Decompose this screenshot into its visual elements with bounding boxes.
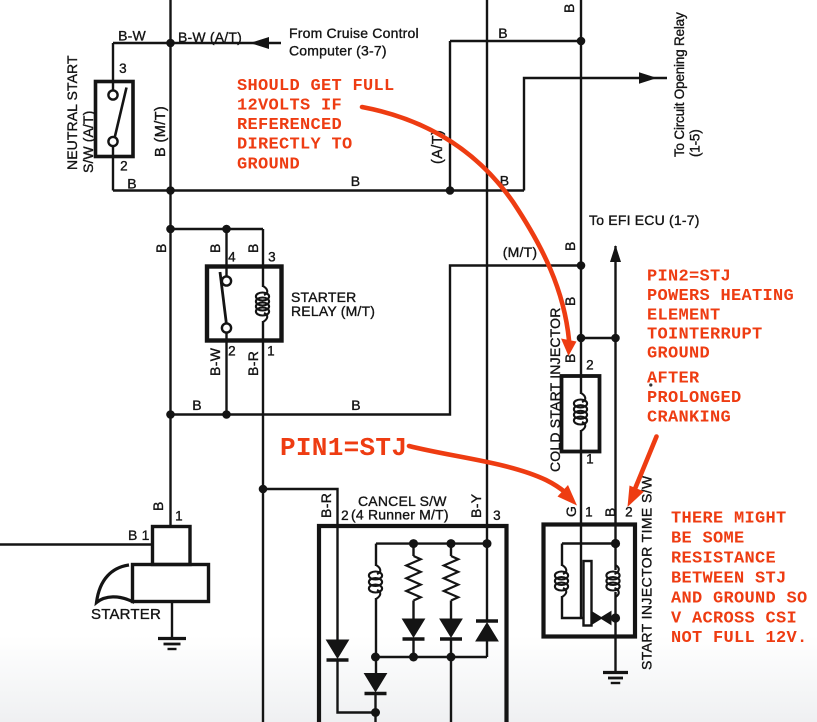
wire: B-Y line V5 to cancel switch pin 3 [486, 0, 488, 544]
svg-text:1: 1 [586, 452, 594, 467]
node: STJ/EFI junction [577, 334, 586, 343]
svg-text:PROLONGED: PROLONGED [647, 389, 742, 408]
svg-text:V ACROSS CSI: V ACROSS CSI [671, 610, 797, 629]
start injector time switch box [544, 525, 636, 637]
wire: cancel bottom rail [376, 656, 488, 658]
starter motor box [133, 565, 209, 602]
svg-text:B-W (A/T): B-W (A/T) [178, 29, 242, 45]
wire: STJ line V6 upper [580, 0, 582, 394]
wire [450, 657, 452, 722]
wire: left heater coil bottom lead [562, 596, 584, 618]
svg-text:B-R: B-R [245, 351, 261, 376]
node: time switch top junction [611, 539, 620, 548]
svg-text:B: B [153, 243, 169, 253]
relay coil L1 [256, 286, 269, 322]
node [409, 539, 418, 548]
wire: relay coil top lead [262, 267, 264, 288]
ground: time switch [603, 673, 628, 684]
svg-text:CRANKING: CRANKING [647, 409, 731, 428]
svg-text:(M/T): (M/T) [503, 244, 537, 260]
svg-text:B-Y: B-Y [468, 493, 484, 518]
cancel diode D1 (B-R branch) [327, 640, 349, 660]
svg-text:3: 3 [119, 61, 127, 76]
time switch right heater coil [606, 565, 619, 597]
wire: relay pin 4 lead [225, 229, 227, 267]
wire: D1 to bottom junction [338, 661, 376, 713]
wire [450, 544, 452, 556]
starter relay (M/T) box [207, 267, 282, 341]
svg-text:B: B [602, 507, 618, 517]
neutral start switch S/W (A/T) box [96, 82, 134, 157]
svg-text:3: 3 [268, 250, 276, 265]
wire: B (M/T) path H7-V9-H6 [171, 266, 582, 415]
svg-text:B: B [245, 243, 261, 253]
svg-text:From Cruise Control: From Cruise Control [289, 25, 419, 41]
svg-text:RESISTANCE: RESISTANCE [671, 550, 776, 569]
svg-text:BE SOME: BE SOME [671, 530, 745, 549]
red arrow: PIN1=STJ to time switch pin 1 [409, 446, 566, 493]
wire: relay coil bottom lead [262, 321, 264, 341]
wire: relay pin 1 B-R line V3 [262, 341, 264, 722]
svg-text:B: B [562, 353, 578, 363]
wire: up-diode top lead [486, 544, 488, 621]
svg-text:1: 1 [175, 509, 183, 524]
ground: starter [158, 639, 186, 650]
svg-text:POWERS HEATING: POWERS HEATING [647, 287, 794, 306]
wire: H3 branch to starter relay [171, 228, 264, 230]
node: B-W junction [166, 39, 175, 48]
wire: B bus H2 [113, 189, 524, 191]
svg-text:SHOULD GET FULL: SHOULD GET FULL [237, 77, 395, 96]
svg-text:To EFI ECU (1-7): To EFI ECU (1-7) [589, 212, 700, 228]
svg-text:G: G [563, 506, 579, 517]
cancel diode D3 [440, 619, 462, 639]
time switch bimetal strip [584, 561, 592, 626]
arrowhead: to EFI ECU (points up) [610, 245, 621, 262]
wire [412, 601, 414, 620]
wire [412, 640, 414, 658]
node: relay branch junction [166, 225, 175, 234]
time switch bimetal contact points [592, 612, 616, 625]
node [447, 653, 456, 662]
cancel diode D5 [365, 674, 387, 694]
svg-text:ELEMENT: ELEMENT [647, 307, 721, 326]
svg-text:B: B [207, 243, 223, 253]
cancel resistor R2 [444, 556, 458, 601]
svg-text:BETWEEN STJ: BETWEEN STJ [671, 570, 787, 589]
svg-text:(4 Runner M/T): (4 Runner M/T) [351, 507, 449, 523]
wire: cancel coil top lead [375, 544, 377, 566]
wire: H4 B link [450, 40, 581, 42]
node: EFI line junction [611, 334, 620, 343]
wire: EFI / time switch pin 2 line V7 [614, 246, 616, 570]
cancel diode D2 [403, 619, 425, 639]
svg-text:B-R: B-R [318, 493, 334, 518]
svg-text:B: B [192, 397, 202, 413]
node [483, 539, 492, 548]
svg-text:1: 1 [585, 505, 593, 520]
svg-text:GROUND: GROUND [237, 156, 300, 175]
arrowhead: from cruise control (points left) [250, 37, 269, 49]
wire: starter ground lead [171, 602, 173, 639]
svg-text:B: B [498, 25, 508, 41]
svg-text:3: 3 [493, 508, 501, 523]
wire: battery B lead to starter [0, 543, 153, 545]
wire: left heater coil top lead [561, 544, 563, 567]
node: B bus junction [166, 186, 175, 195]
node: starter branch junction [166, 410, 175, 419]
node: time switch contact junction [611, 613, 620, 622]
svg-text:REFERENCED: REFERENCED [237, 116, 342, 135]
svg-text:2: 2 [625, 505, 633, 520]
svg-text:COLD START INJECTOR: COLD START INJECTOR [547, 307, 563, 472]
wire [486, 641, 488, 657]
cancel diode D4 (pointing up) [476, 621, 498, 641]
red arrow: cranking note to time switch pin 2 [635, 437, 657, 491]
node: B-R branch junction [259, 485, 268, 494]
svg-text:2: 2 [341, 508, 349, 523]
wire: STJ line V6 lower through injector pin1 [580, 430, 582, 618]
node [447, 539, 456, 548]
wire: time switch pin 2 to ground [614, 592, 616, 672]
svg-text:B: B [561, 3, 577, 13]
red arrow: 12V note to cold start injector [362, 107, 569, 340]
node [371, 708, 380, 717]
svg-text:DIRECTLY TO: DIRECTLY TO [237, 136, 353, 155]
svg-text:B: B [351, 397, 361, 413]
wire: link to EFI ECU line [581, 337, 616, 339]
wire: cancel coil bottom lead [375, 598, 377, 674]
svg-text:2: 2 [120, 159, 128, 174]
wire: neutral start switch pin 3 lead [112, 43, 114, 82]
svg-text:GROUND: GROUND [647, 345, 710, 364]
cancel resistor R1 [406, 556, 420, 601]
wire: time switch internal top link [562, 542, 616, 544]
svg-text:NEUTRAL START: NEUTRAL START [64, 55, 80, 170]
svg-text:2: 2 [586, 358, 594, 373]
node [371, 653, 380, 662]
svg-text:AFTER: AFTER [647, 370, 700, 389]
svg-text:RELAY (M/T): RELAY (M/T) [291, 303, 375, 319]
node: A/T line junction [446, 186, 455, 195]
starter pinion crescent [97, 565, 135, 603]
node: relay pin2 junction [222, 410, 231, 419]
wire [450, 601, 452, 620]
svg-text:B (M/T): B (M/T) [153, 106, 169, 157]
starter solenoid box [153, 527, 191, 565]
svg-text:B 1: B 1 [128, 527, 150, 543]
svg-text:START INJECTOR TIME S/W: START INJECTOR TIME S/W [639, 475, 655, 670]
svg-text:S/W (A/T): S/W (A/T) [80, 111, 96, 173]
svg-text:Computer (3-7): Computer (3-7) [289, 43, 387, 59]
svg-text:12VOLTS IF: 12VOLTS IF [237, 97, 342, 116]
node: M/T junction [577, 261, 586, 270]
svg-text:B: B [351, 173, 361, 189]
svg-text:B: B [127, 176, 137, 192]
wire: neutral start switch pin 2 lead [112, 157, 114, 191]
wire: relay pin 2 B-W lead [225, 341, 227, 415]
wire: (A/T) line V4 [449, 41, 451, 191]
node: H4 junction [577, 37, 586, 46]
arrowhead: to circuit opening relay (points right) [639, 72, 657, 84]
wire: main B line V1 from top to starter [169, 0, 171, 526]
node [409, 653, 418, 662]
svg-text:(1-5): (1-5) [688, 129, 703, 157]
svg-text:TOINTERRUPT: TOINTERRUPT [647, 326, 763, 345]
cancel switch coil [369, 565, 382, 599]
wire: B-W horizontal H1 to cruise control [113, 42, 281, 44]
cold start injector coil [574, 393, 587, 431]
svg-text:NOT FULL 12V.: NOT FULL 12V. [671, 629, 808, 648]
wire [450, 640, 452, 658]
svg-text:4: 4 [228, 250, 236, 265]
svg-text:B: B [562, 241, 578, 251]
svg-text:PIN1=STJ: PIN1=STJ [280, 433, 407, 463]
speck near AFTER [649, 383, 652, 386]
svg-text:PIN2=STJ: PIN2=STJ [647, 268, 731, 287]
svg-text:B-W: B-W [118, 28, 146, 44]
svg-text:AND GROUND SO: AND GROUND SO [671, 590, 808, 609]
wire [412, 544, 414, 556]
wire [374, 694, 376, 722]
svg-text:B-W: B-W [207, 347, 223, 376]
svg-text:B: B [150, 501, 166, 511]
wire: tap to circuit opening relay [524, 78, 667, 191]
svg-text:THERE MIGHT: THERE MIGHT [671, 510, 787, 529]
time switch left heater coil [555, 565, 568, 597]
svg-text:1: 1 [267, 344, 275, 359]
starter relay switch contacts [220, 267, 231, 341]
wire: relay pin 3 lead [262, 229, 264, 267]
svg-text:To Circuit Opening Relay: To Circuit Opening Relay [672, 12, 687, 157]
cold start injector box [562, 376, 600, 452]
wire: cancel top rail [376, 542, 487, 544]
svg-text:2: 2 [228, 344, 236, 359]
cancel switch box [319, 526, 507, 722]
node: relay pin4 junction [222, 225, 231, 234]
svg-text:STARTER: STARTER [91, 606, 161, 623]
wire: B-R branch to cancel switch pin 2 [263, 489, 338, 640]
neutral start switch contacts [108, 82, 126, 157]
